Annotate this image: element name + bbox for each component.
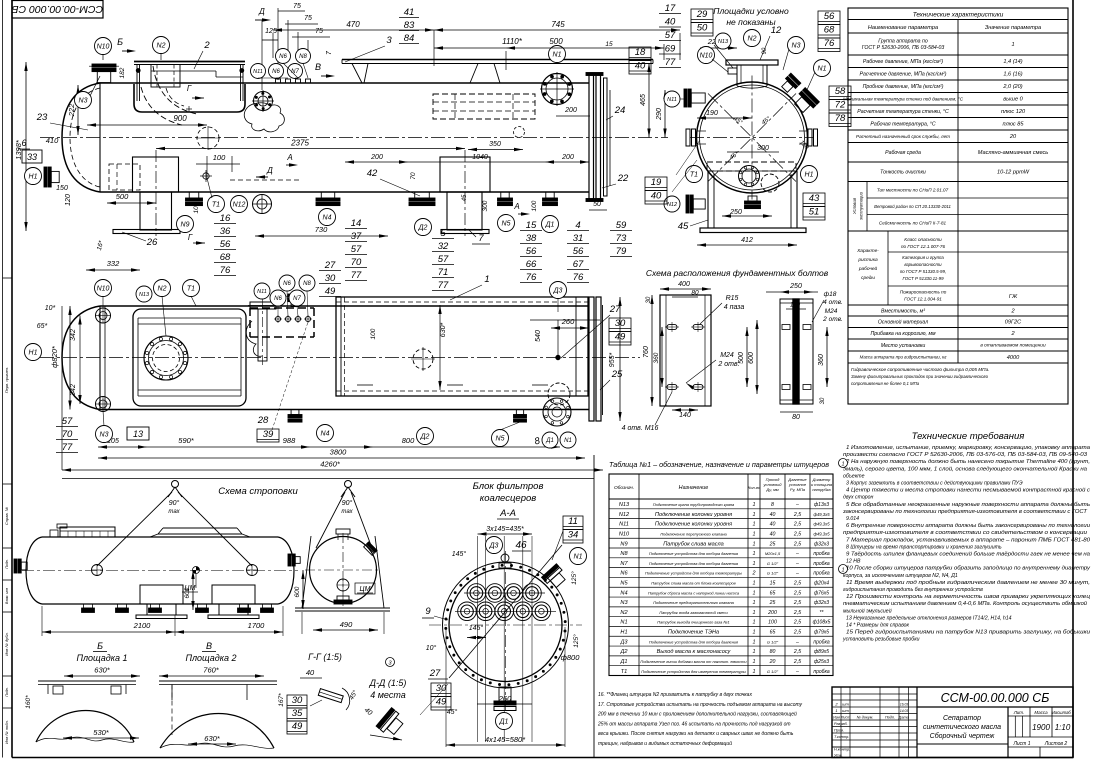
svg-text:200: 200 bbox=[370, 154, 383, 161]
svg-text:200: 200 bbox=[564, 107, 577, 114]
svg-text:N5: N5 bbox=[620, 581, 628, 587]
big flange N1 on top right (circle with bolts) bbox=[542, 74, 573, 105]
vessel shell top line bbox=[100, 82, 589, 84]
end view leaders bbox=[714, 45, 733, 68]
svg-text:ГЖ: ГЖ bbox=[1009, 294, 1018, 300]
svg-text:1: 1 bbox=[753, 522, 756, 528]
svg-text:39: 39 bbox=[263, 429, 274, 440]
svg-text:ф820*: ф820* bbox=[50, 345, 59, 368]
svg-text:2: 2 bbox=[752, 571, 756, 577]
svg-text:68: 68 bbox=[220, 252, 231, 263]
svg-text:1,4 (14): 1,4 (14) bbox=[1003, 59, 1022, 65]
svg-text:ф76х5: ф76х5 bbox=[814, 590, 829, 596]
strop end slings bbox=[345, 481, 352, 488]
foundation plate 1 (plan) bbox=[660, 295, 711, 406]
svg-text:145°: 145° bbox=[452, 550, 467, 558]
svg-text:max: max bbox=[168, 509, 180, 515]
svg-text:6 Внутренние поверхности аппа: 6 Внутренние поверхности аппарата должны… bbox=[846, 523, 1090, 529]
svg-text:законсервированы по технологии: законсервированы по технологии предприят… bbox=[842, 509, 1088, 515]
strop platform box left bbox=[60, 527, 115, 537]
svg-text:56: 56 bbox=[220, 239, 231, 250]
svg-text:34: 34 bbox=[568, 530, 579, 541]
svg-text:Н1: Н1 bbox=[620, 630, 627, 636]
svg-text:76: 76 bbox=[220, 265, 231, 276]
strop dims bbox=[42, 631, 283, 633]
dims 125 and 75x3 at top bbox=[262, 39, 278, 41]
svg-text:3: 3 bbox=[386, 35, 392, 46]
extension lines through view bbox=[477, 536, 479, 742]
svg-text:N13: N13 bbox=[718, 39, 729, 45]
top platform item 3 (right, line with legs) bbox=[342, 59, 653, 61]
svg-text:28: 28 bbox=[257, 415, 269, 426]
svg-text:1: 1 bbox=[753, 669, 756, 675]
svg-text:2,5: 2,5 bbox=[793, 620, 801, 626]
svg-text:Наименование параметра: Наименование параметра bbox=[868, 25, 938, 31]
svg-text:Подключение ТЭНа: Подключение ТЭНа bbox=[668, 630, 719, 636]
svg-text:125: 125 bbox=[265, 28, 277, 35]
svg-text:2,5: 2,5 bbox=[793, 531, 801, 537]
vessel axis centerline bbox=[40, 137, 668, 139]
svg-text:16.03: 16.03 bbox=[900, 702, 908, 706]
svg-text:не показаны: не показаны bbox=[726, 17, 776, 27]
svg-text:2,5: 2,5 bbox=[793, 600, 801, 606]
small boss N13 on N2 neck bbox=[728, 68, 737, 74]
svg-text:Назначение: Назначение bbox=[679, 485, 709, 491]
svg-text:11: 11 bbox=[568, 516, 578, 527]
internal dashed lines lower left (heater zone) bbox=[109, 164, 140, 190]
table: technical characteristics bbox=[843, 8, 1068, 404]
svg-text:Д1: Д1 bbox=[499, 719, 509, 726]
foundation plate 2 (side) bbox=[780, 299, 813, 404]
svg-text:140: 140 bbox=[679, 412, 691, 419]
svg-text:1: 1 bbox=[753, 541, 756, 547]
svg-text:100: 100 bbox=[531, 200, 538, 211]
svg-text:Рабочая среда: Рабочая среда bbox=[885, 150, 921, 156]
svg-text:7: 7 bbox=[478, 233, 484, 244]
svg-text:ф49,3х5: ф49,3х5 bbox=[813, 531, 830, 536]
filter dims bottom bbox=[477, 703, 532, 705]
svg-text:17: 17 bbox=[665, 3, 676, 14]
svg-text:Лист 1: Лист 1 bbox=[1012, 741, 1030, 747]
svg-text:N5: N5 bbox=[502, 221, 511, 228]
svg-text:342: 342 bbox=[70, 384, 77, 396]
svg-text:Подключение устройств для отбо: Подключение устройств для отбора темпера… bbox=[645, 571, 742, 576]
svg-text:Д1: Д1 bbox=[545, 222, 555, 229]
svg-text:пробка: пробка bbox=[813, 669, 829, 675]
svg-text:360: 360 bbox=[653, 352, 660, 363]
svg-text:1040: 1040 bbox=[472, 154, 488, 161]
svg-text:300: 300 bbox=[482, 200, 489, 211]
svg-text:745: 745 bbox=[551, 20, 565, 29]
svg-text:40: 40 bbox=[770, 512, 776, 518]
strop top small stubs bbox=[50, 530, 58, 537]
svg-text:2,5: 2,5 bbox=[793, 649, 801, 655]
svg-text:N6: N6 bbox=[283, 281, 291, 287]
separator line above filter area bbox=[593, 455, 595, 757]
svg-text:N6: N6 bbox=[279, 54, 287, 60]
svg-text:167*: 167* bbox=[278, 693, 285, 707]
plate1 dims bbox=[660, 288, 711, 290]
svg-text:Д3: Д3 bbox=[619, 639, 628, 645]
svg-text:Подп.: Подп. bbox=[5, 559, 9, 569]
svg-text:1: 1 bbox=[753, 502, 756, 508]
svg-text:75: 75 bbox=[293, 3, 301, 10]
svg-text:900: 900 bbox=[173, 114, 187, 123]
svg-text:произвести согласно ГОСТ Р 526: произвести согласно ГОСТ Р 52630-2006, П… bbox=[843, 452, 1087, 458]
svg-text:–: – bbox=[795, 571, 799, 577]
svg-text:15: 15 bbox=[605, 41, 613, 48]
svg-text:N5: N5 bbox=[496, 436, 505, 443]
svg-text:Г-Г (1:5): Г-Г (1:5) bbox=[308, 652, 342, 662]
svg-text:Выход масла к маслонасосу: Выход масла к маслонасосу bbox=[657, 649, 732, 655]
svg-text:Инв № подл.: Инв № подл. bbox=[4, 720, 9, 744]
svg-text:19: 19 bbox=[651, 177, 662, 188]
svg-text:ф49,3х5: ф49,3х5 bbox=[813, 512, 830, 517]
svg-text:100: 100 bbox=[193, 202, 200, 213]
dim 470 / 745 bbox=[273, 29, 680, 31]
svg-text:Утв.: Утв. bbox=[834, 754, 843, 758]
svg-text:45: 45 bbox=[678, 221, 689, 232]
svg-text:4 отв. М16: 4 отв. М16 bbox=[622, 425, 659, 432]
svg-text:Рабочее давление, МПа (кгс/см²: Рабочее давление, МПа (кгс/см²) bbox=[863, 59, 943, 65]
svg-text:500: 500 bbox=[116, 192, 129, 201]
svg-text:69: 69 bbox=[665, 44, 676, 55]
svg-text:шт: шт bbox=[842, 701, 849, 706]
small bosses N6-N8 on shell top bbox=[276, 79, 281, 83]
svg-text:350: 350 bbox=[489, 141, 501, 148]
dim 500 (left saddle) bbox=[107, 202, 156, 204]
svg-text:30: 30 bbox=[292, 695, 303, 706]
svg-text:Кол-во: Кол-во bbox=[748, 485, 761, 490]
svg-text:8 Штуцеры на время транспорти: 8 Штуцеры на время транспортировки и хра… bbox=[846, 544, 1002, 550]
svg-text:Г: Г bbox=[187, 84, 192, 93]
svg-text:800: 800 bbox=[402, 436, 415, 445]
svg-text:8: 8 bbox=[771, 502, 774, 508]
svg-text:145°: 145° bbox=[469, 624, 484, 632]
svg-text:М24: М24 bbox=[720, 352, 734, 359]
plan callouts bbox=[95, 280, 112, 297]
elbow upper rect bbox=[151, 65, 180, 88]
svg-text:пневматическим испытанием давл: пневматическим испытанием давлением 0,4-… bbox=[843, 600, 1087, 607]
dashed elbow arcs bbox=[141, 87, 182, 125]
crane hook symbol bbox=[172, 481, 179, 488]
svg-text:G 1/2": G 1/2" bbox=[767, 639, 779, 644]
table N1: nozzles designation table bbox=[609, 460, 833, 676]
svg-text:1,6 (16): 1,6 (16) bbox=[1003, 72, 1022, 78]
svg-text:ф79х5: ф79х5 bbox=[814, 630, 829, 636]
bottom centre nozzle bbox=[745, 196, 761, 209]
svg-text:N10: N10 bbox=[97, 44, 110, 51]
svg-text:установить резьбовые пробки: установить резьбовые пробки bbox=[842, 637, 920, 643]
svg-text:Условия: Условия bbox=[852, 197, 857, 214]
svg-text:730: 730 bbox=[315, 225, 328, 234]
svg-text:300: 300 bbox=[757, 145, 769, 152]
svg-text:10-12 ppmW: 10-12 ppmW bbox=[997, 170, 1030, 176]
svg-text:Д2: Д2 bbox=[619, 649, 628, 655]
svg-text:83: 83 bbox=[404, 20, 415, 31]
svg-text:49: 49 bbox=[325, 286, 336, 297]
svg-text:N1: N1 bbox=[564, 438, 572, 444]
svg-text:Масса аппарата при гидроиспыта: Масса аппарата при гидроиспытании, кг bbox=[860, 355, 948, 360]
svg-text:32: 32 bbox=[438, 241, 449, 252]
svg-text:N3: N3 bbox=[620, 600, 628, 606]
svg-text:14 * Размеры для справок: 14 * Размеры для справок bbox=[846, 623, 910, 629]
svg-text:М20х1,5: М20х1,5 bbox=[765, 551, 781, 556]
plan end flange bbox=[589, 297, 594, 421]
svg-text:3х145=435*: 3х145=435* bbox=[486, 526, 524, 533]
svg-text:70: 70 bbox=[410, 172, 417, 180]
end view dims bbox=[640, 63, 651, 138]
thick dashed zone (N6-N8 bosses) bbox=[250, 307, 314, 309]
svg-text:ф89х5: ф89х5 bbox=[814, 649, 829, 655]
detail G-G bbox=[287, 652, 359, 734]
svg-text:ф18: ф18 bbox=[824, 291, 837, 298]
svg-text:Н1: Н1 bbox=[29, 174, 38, 181]
svg-text:342: 342 bbox=[70, 329, 77, 341]
svg-text:Класс опасности: Класс опасности bbox=[904, 237, 942, 242]
svg-text:Масляно-аммиачная смесь: Масляно-аммиачная смесь bbox=[978, 150, 1049, 156]
svg-text:1: 1 bbox=[484, 274, 489, 285]
top-left inverted designation stamp CCM-00.00.000 bbox=[12, 1, 103, 19]
svg-text:Расчетная температура стенки,: Расчетная температура стенки, °С bbox=[857, 109, 949, 115]
svg-text:Т1: Т1 bbox=[690, 172, 698, 179]
svg-text:20: 20 bbox=[1009, 134, 1017, 140]
svg-text:1: 1 bbox=[753, 630, 756, 636]
svg-text:N10: N10 bbox=[619, 531, 630, 537]
dim 900 bbox=[87, 124, 207, 126]
svg-text:4 Центр тяжести и места строп: 4 Центр тяжести и места строповки нанест… bbox=[846, 487, 1090, 494]
svg-text:290: 290 bbox=[656, 108, 663, 121]
svg-text:Сборочный чертеж: Сборочный чертеж bbox=[930, 732, 996, 740]
svg-text:2 На наружную поверхность дол: 2 На наружную поверхность должно быть на… bbox=[845, 459, 1090, 465]
svg-text:Д3: Д3 bbox=[553, 288, 563, 295]
filter block view A-A bbox=[420, 481, 587, 747]
svg-text:Значение параметра: Значение параметра bbox=[985, 25, 1041, 31]
svg-text:Подключение колонки уровня: Подключение колонки уровня bbox=[655, 522, 732, 528]
svg-text:25: 25 bbox=[769, 541, 776, 547]
svg-text:–: – bbox=[795, 502, 799, 508]
svg-text:N6: N6 bbox=[274, 296, 282, 302]
svg-text:N10: N10 bbox=[700, 53, 713, 60]
svg-text:R15: R15 bbox=[726, 295, 739, 302]
svg-text:N2: N2 bbox=[620, 610, 628, 616]
strop end bottom nozzle + cm bbox=[337, 579, 349, 591]
svg-text:коалесцеров: коалесцеров bbox=[480, 493, 537, 504]
svg-text:ГОСТ Р 52630-2006, ПБ 03-584-0: ГОСТ Р 52630-2006, ПБ 03-584-03 bbox=[862, 45, 945, 51]
svg-text:1: 1 bbox=[753, 620, 756, 626]
leaders plan bosses bbox=[277, 306, 279, 316]
position stacks elevation bbox=[214, 213, 236, 276]
svg-text:50: 50 bbox=[593, 201, 601, 208]
vertical dim 1398* bbox=[14, 62, 28, 231]
filter cartridges top row bbox=[467, 584, 486, 603]
dim 350/1040/200 row bbox=[468, 149, 523, 151]
svg-text:40: 40 bbox=[306, 668, 315, 677]
plan dims left bbox=[50, 306, 72, 410]
svg-text:Гидравлическое сопротивление ч: Гидравлическое сопротивление чистого фил… bbox=[851, 367, 990, 372]
svg-text:33: 33 bbox=[27, 152, 37, 162]
svg-text:57: 57 bbox=[351, 244, 362, 255]
svg-text:600: 600 bbox=[184, 587, 191, 598]
svg-text:Н1: Н1 bbox=[29, 350, 38, 357]
svg-text:ССМ-00.00.000 СБ: ССМ-00.00.000 СБ bbox=[941, 691, 1050, 705]
svg-text:23: 23 bbox=[36, 112, 48, 123]
svg-text:16: 16 bbox=[220, 213, 231, 224]
svg-text:40: 40 bbox=[770, 522, 776, 528]
svg-text:N11: N11 bbox=[667, 97, 677, 103]
svg-text:ГОСТ 12.1.004-91: ГОСТ 12.1.004-91 bbox=[904, 297, 942, 302]
svg-text:N8: N8 bbox=[620, 551, 628, 557]
svg-text:465: 465 bbox=[640, 94, 647, 106]
svg-text:№ докум.: № докум. bbox=[857, 715, 874, 719]
diagonal nozzle N1 (right, bigger) bbox=[792, 88, 820, 116]
svg-text:N11: N11 bbox=[619, 522, 629, 528]
svg-text:ф13х3: ф13х3 bbox=[814, 502, 829, 508]
svg-text:Патрубок входа газомасляной см: Патрубок входа газомасляной смеси bbox=[659, 610, 728, 615]
svg-text:12: 12 bbox=[771, 25, 782, 36]
svg-text:среды: среды bbox=[861, 275, 875, 281]
nozzle D1 under shell bbox=[543, 192, 558, 206]
svg-text:2100: 2100 bbox=[133, 621, 152, 630]
svg-text:N7: N7 bbox=[293, 296, 301, 302]
svg-text:2: 2 bbox=[203, 40, 210, 51]
svg-text:75: 75 bbox=[304, 15, 312, 22]
svg-text:N6: N6 bbox=[620, 571, 628, 577]
svg-text:Т1: Т1 bbox=[187, 286, 195, 293]
svg-text:N4: N4 bbox=[620, 590, 627, 596]
svg-text:17. Стропoвые устройства испы: 17. Стропoвые устройства испытать на про… bbox=[598, 701, 803, 708]
svg-text:9.014: 9.014 bbox=[846, 516, 859, 522]
nozzle N11 left bbox=[684, 89, 705, 107]
svg-text:предприятия-изготовителя в соо: предприятия-изготовителя в соответствии … bbox=[843, 530, 1087, 536]
svg-text:78: 78 bbox=[835, 113, 846, 124]
dim 1110* / 500 bbox=[434, 47, 664, 49]
sling lines bbox=[97, 492, 172, 566]
svg-text:А: А bbox=[286, 153, 292, 162]
svg-text:Площадки условно: Площадки условно bbox=[713, 6, 789, 16]
svg-text:1: 1 bbox=[753, 512, 756, 518]
svg-text:1: 1 bbox=[753, 659, 756, 665]
D1/N1 flanged circles bottom right bbox=[543, 398, 571, 426]
svg-text:Масса: Масса bbox=[1034, 710, 1048, 715]
title block (GOST form 1) bbox=[832, 687, 1073, 758]
filter shell circle bbox=[443, 562, 569, 688]
svg-text:160*: 160* bbox=[25, 695, 32, 709]
svg-text:ф49,3х5: ф49,3х5 bbox=[813, 522, 830, 527]
svg-text:18: 18 bbox=[635, 47, 646, 58]
svg-text:ф25х3: ф25х3 bbox=[814, 659, 829, 665]
svg-text:37: 37 bbox=[351, 231, 362, 242]
svg-text:90°: 90° bbox=[342, 499, 353, 507]
svg-text:12 НВ: 12 НВ bbox=[846, 559, 861, 565]
dim 730 bbox=[255, 235, 388, 237]
nozzle N5 under shell bbox=[498, 192, 513, 206]
svg-text:10 После сборки штуцеров патр: 10 После сборки штуцеров патрубки образи… bbox=[846, 566, 1090, 572]
svg-text:Д2: Д2 bbox=[420, 434, 430, 441]
svg-text:57: 57 bbox=[438, 254, 449, 265]
svg-text:260: 260 bbox=[561, 317, 575, 326]
svg-text:шт: шт bbox=[842, 708, 849, 713]
svg-text:70: 70 bbox=[351, 257, 362, 268]
svg-text:Блок фильтров: Блок фильтров bbox=[473, 481, 544, 492]
internal oil box (rounded bottom corners) bbox=[134, 84, 245, 112]
dashed band inside (liquid level / internals) bbox=[707, 162, 796, 171]
svg-text:955*: 955* bbox=[609, 353, 616, 368]
svg-text:630*: 630* bbox=[204, 734, 221, 743]
top platform item 2 (left frame) bbox=[134, 61, 245, 63]
svg-text:Т1: Т1 bbox=[212, 202, 220, 209]
svg-text:ф108х5: ф108х5 bbox=[813, 620, 831, 626]
svg-text:3800: 3800 bbox=[330, 448, 348, 457]
svg-text:1900: 1900 bbox=[1032, 723, 1050, 732]
D3 nozzle top bbox=[501, 554, 509, 562]
svg-text:600: 600 bbox=[748, 352, 755, 364]
11/34 stack bbox=[563, 516, 583, 543]
svg-text:Тонкость очистки: Тонкость очистки bbox=[880, 170, 926, 176]
svg-text:630*: 630* bbox=[94, 666, 111, 675]
svg-text:59: 59 bbox=[616, 220, 627, 231]
svg-text:Т.контр.: Т.контр. bbox=[834, 735, 849, 739]
svg-text:Лист: Лист bbox=[840, 715, 850, 719]
svg-text:Лит.: Лит. bbox=[1013, 710, 1025, 715]
svg-text:N3: N3 bbox=[79, 98, 88, 105]
svg-text:30: 30 bbox=[820, 397, 826, 404]
svg-text:Изм: Изм bbox=[833, 715, 840, 719]
svg-text:13 Неуказанные предельные отк: 13 Неуказанные предельные отклонения раз… bbox=[846, 615, 1012, 621]
centroid mark and CM label bbox=[193, 567, 200, 574]
svg-text:46: 46 bbox=[515, 540, 527, 551]
notes 16,17 continuation text bbox=[597, 692, 803, 747]
svg-text:Дата: Дата bbox=[898, 715, 909, 719]
end view centerlines bbox=[690, 137, 814, 139]
svg-text:630*: 630* bbox=[440, 323, 447, 338]
svg-text:30: 30 bbox=[325, 273, 336, 284]
svg-text:по ГОСТ Р 51330.5-99,: по ГОСТ Р 51330.5-99, bbox=[900, 269, 946, 274]
svg-text:200 мм в течении 10 мин с прил: 200 мм в течении 10 мин с приложением до… bbox=[597, 711, 797, 718]
svg-text:2 отв.: 2 отв. bbox=[822, 316, 843, 323]
svg-text:15: 15 bbox=[526, 220, 537, 231]
svg-text:–: – bbox=[795, 561, 799, 567]
svg-text:10°: 10° bbox=[426, 644, 437, 652]
svg-text:Подключение устройства для отб: Подключение устройства для отбора давлен… bbox=[649, 561, 738, 566]
svg-text:76: 76 bbox=[526, 272, 537, 283]
svg-text:Взам. инв: Взам. инв bbox=[5, 588, 9, 604]
svg-text:65: 65 bbox=[770, 630, 776, 636]
svg-text:26: 26 bbox=[146, 237, 158, 248]
end flange column item 22 bbox=[589, 75, 594, 199]
row lines bbox=[464, 592, 545, 594]
svg-text:150: 150 bbox=[56, 185, 68, 192]
detail view platform 2 bbox=[159, 641, 285, 748]
svg-text:В: В bbox=[206, 641, 212, 651]
side stub nozzles (3 and 9 o'clock) bbox=[686, 129, 690, 146]
leader lines top bosses bbox=[258, 77, 278, 79]
svg-text:N12: N12 bbox=[619, 512, 630, 518]
svg-text:49: 49 bbox=[615, 332, 626, 343]
svg-text:1: 1 bbox=[753, 600, 756, 606]
svg-text:77: 77 bbox=[351, 270, 362, 281]
svg-text:N6: N6 bbox=[272, 69, 280, 75]
svg-text:Справ. №: Справ. № bbox=[4, 506, 9, 525]
svg-text:56: 56 bbox=[573, 246, 584, 257]
svg-text:67: 67 bbox=[573, 259, 584, 270]
circled ref markers bbox=[839, 459, 848, 468]
svg-text:36: 36 bbox=[220, 226, 231, 237]
nozzle N12 bottom-left bbox=[686, 195, 705, 213]
svg-text:77: 77 bbox=[62, 442, 73, 453]
svg-text:988: 988 bbox=[283, 436, 296, 445]
svg-text:100: 100 bbox=[213, 153, 226, 162]
